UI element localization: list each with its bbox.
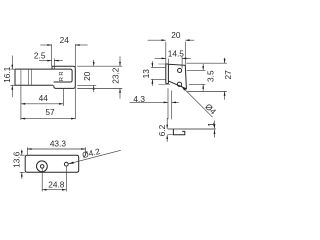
dim 2.5 line (39, 60, 63, 62)
dim 13.6 text (12, 151, 22, 168)
svg-text:44: 44 (39, 93, 49, 103)
svg-text:20: 20 (82, 71, 92, 81)
svg-text:24.8: 24.8 (48, 180, 65, 190)
dim 23.2 text (111, 67, 121, 84)
hole top (side view) (178, 68, 182, 72)
leader line Ø4.2 (68, 150, 121, 164)
flat view: plate outline (25, 155, 78, 172)
svg-text:4.3: 4.3 (133, 94, 145, 104)
dim 6.2 line (166, 118, 168, 142)
svg-text:3.5: 3.5 (205, 70, 215, 82)
dim 24 extension lines (52, 44, 76, 119)
dim 27 extension lines (186, 63, 226, 91)
svg-text:13: 13 (141, 69, 151, 79)
hole bottom (side view) (177, 82, 181, 86)
dim 3.5 text (205, 70, 215, 82)
dim 57 line (21, 118, 75, 120)
dim 43.3 extension lines (27, 147, 85, 156)
label R lower (59, 77, 65, 81)
dim 13.6 extension lines (20, 155, 25, 172)
dim 24.8 line (42, 189, 66, 191)
dim 14.5 line (155, 58, 191, 60)
dim 43.3 line (27, 148, 85, 150)
front view: clip bar outline (15, 69, 72, 85)
svg-text:27: 27 (223, 70, 233, 80)
side view: tilted flange (168, 64, 186, 89)
dim 20 text (front view) (82, 71, 92, 81)
dim 44 line (21, 103, 64, 105)
dim 6.2 text (157, 124, 167, 136)
dim 2.5 extension line (53, 59, 55, 66)
dim 4.3 text (133, 94, 145, 104)
dim 13 line (152, 61, 154, 86)
svg-text:13.6: 13.6 (12, 151, 22, 168)
edge view: plate edge line (168, 128, 216, 130)
dim 2.5 text (34, 51, 46, 61)
edge view: hook profile (168, 129, 185, 135)
svg-text:14.5: 14.5 (168, 49, 185, 59)
svg-text:43.3: 43.3 (50, 138, 67, 148)
dim 13 text (141, 69, 151, 79)
dim 20 text (side view) (171, 30, 181, 40)
dim Ø4.2 text (81, 146, 101, 160)
dim 43.3 text (50, 138, 67, 148)
dim 3.5 line (202, 64, 204, 91)
hole right (flat view) (64, 162, 68, 166)
svg-text:57: 57 (45, 107, 55, 117)
hole left (flat view) (40, 165, 44, 169)
svg-text:20: 20 (171, 30, 181, 40)
svg-text:16.1: 16.1 (2, 66, 12, 83)
dim 13 extension lines (151, 67, 166, 79)
dim 44 extension lines (21, 85, 64, 120)
svg-text:6.2: 6.2 (157, 124, 167, 136)
dim 4.3 extension lines (168, 88, 172, 119)
svg-text:2.5: 2.5 (34, 51, 46, 61)
dim 20 line (front view) (93, 60, 95, 92)
dim 24.8 extension lines (42, 166, 66, 191)
flat view: embossed ring (37, 161, 48, 172)
dim 20 line (side view) (148, 39, 195, 41)
side view: upright ledge lines (158, 64, 170, 84)
front view: fold line left (20, 69, 22, 85)
svg-text:24: 24 (60, 35, 70, 45)
front view: bent plate outer profile (52, 66, 75, 88)
dim 23.2 extension line bottom (77, 88, 122, 90)
dim 20 extension lines (side view) (166, 42, 186, 65)
dim 1 line (214, 121, 216, 138)
dim 16.1 line (11, 56, 13, 98)
dim 3.5 extension lines (187, 70, 206, 84)
dim 24 line (40, 44, 87, 46)
front view: fold line pair (28, 69, 31, 85)
svg-text:R: R (59, 71, 65, 75)
dim 14.5 text (168, 49, 185, 59)
side view: upright plate (166, 64, 169, 84)
dim 24.8 text (48, 180, 65, 190)
dim 44 text (39, 93, 49, 103)
dim 20 extension lines (front view) (77, 66, 122, 85)
dim 24 text (60, 35, 70, 45)
dim 23.2 line (119, 56, 121, 99)
dim 27 line (224, 58, 226, 100)
dim 57 text (45, 107, 55, 117)
dim Ø4 text (203, 101, 218, 116)
svg-text:1: 1 (206, 122, 216, 127)
dim 1 text (206, 122, 216, 127)
dim 16.1 text (2, 66, 12, 83)
leader line Ø4 (181, 86, 212, 117)
dim 13.6 line (21, 150, 23, 179)
svg-text:23.2: 23.2 (111, 67, 121, 84)
dim 27 text (223, 70, 233, 80)
dim 16.1 extension lines (10, 69, 14, 85)
dim 4.3 line (130, 102, 179, 104)
svg-text:R: R (59, 77, 65, 81)
dim 14.5 extension line (168, 56, 182, 68)
label R upper (59, 71, 65, 75)
